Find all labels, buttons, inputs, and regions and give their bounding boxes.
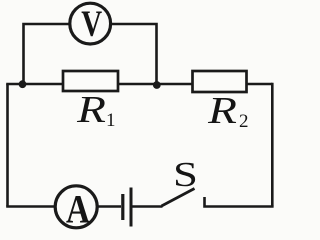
resistor R1 [63, 71, 118, 91]
wire voltmeter right branch [110, 24, 156, 84]
wire bottom left segment [6, 205, 56, 208]
wire left vertical side [6, 84, 9, 207]
battery negative plate (short) [121, 194, 124, 220]
svg-text:S: S [173, 155, 198, 194]
node A junction dot left [19, 80, 27, 88]
ammeter A circle [55, 186, 97, 228]
switch S blade [162, 189, 195, 207]
svg-text:R: R [207, 90, 237, 132]
wire battery to switch hinge [133, 205, 163, 208]
wire ammeter to battery [97, 205, 121, 208]
wire right vertical side [271, 83, 274, 207]
wire top left segment [6, 83, 63, 86]
node B junction dot right [153, 81, 161, 89]
resistor R2 [193, 71, 247, 92]
svg-text:1: 1 [106, 110, 116, 131]
wire voltmeter left branch [24, 24, 71, 84]
svg-text:A: A [66, 187, 90, 231]
svg-text:V: V [81, 4, 102, 45]
wire between R1 and R2 [118, 83, 193, 86]
svg-text:2: 2 [239, 111, 249, 132]
svg-text:R: R [76, 89, 106, 131]
wire top right segment [247, 83, 273, 86]
wire bottom right with switch fixed contact [205, 197, 274, 207]
battery positive plate (long) [130, 188, 133, 227]
voltmeter V circle [70, 3, 111, 44]
